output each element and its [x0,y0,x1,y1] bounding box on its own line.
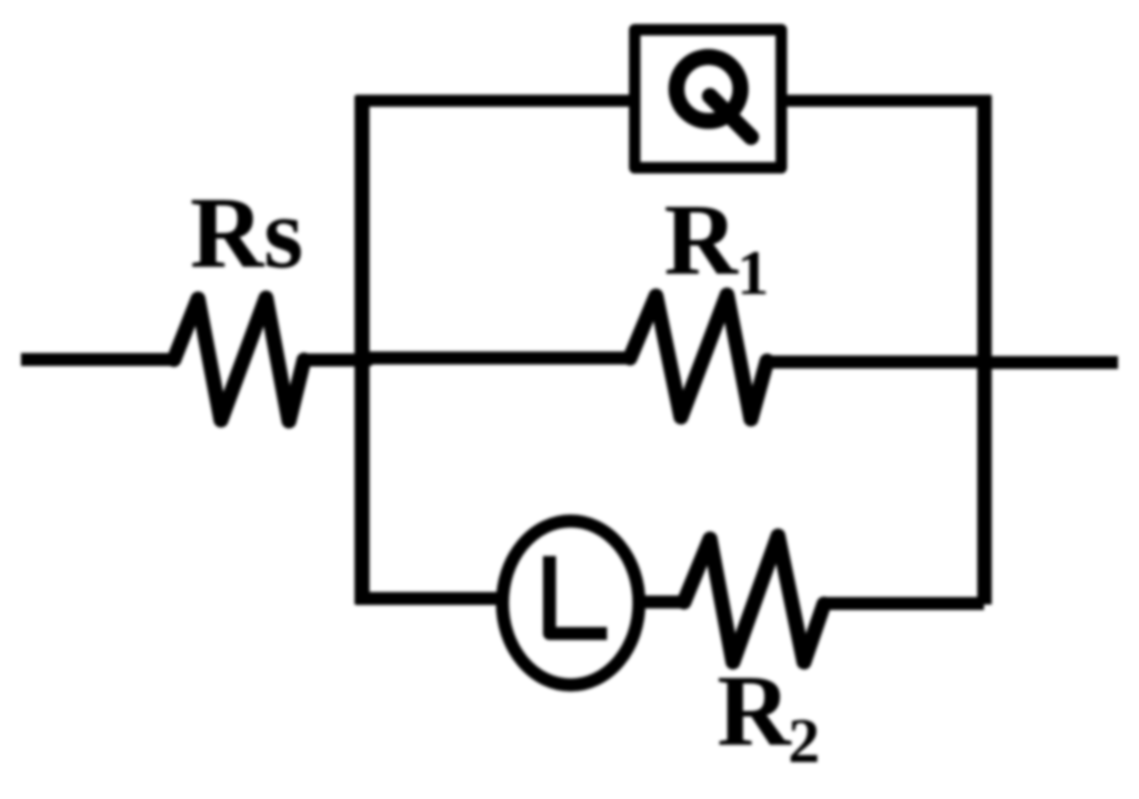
svg-text:Rs: Rs [190,177,303,290]
capacitor/CPE box Q1 [635,30,782,168]
wire Rs to node [304,354,368,367]
bottom rail right wire [824,597,984,610]
wire node to R1 [362,352,630,365]
wire L to R2 [644,596,684,609]
bottom rail left wire [356,592,498,605]
top rail wire left segment [356,95,630,107]
inductor L1 circle [502,521,639,685]
top rail wire right segment [786,95,991,107]
svg-text:R: R [664,184,739,297]
wire right stub [984,356,1118,369]
svg-text:1: 1 [737,237,769,308]
right vertical bus wire [977,96,992,605]
letter Q [677,57,752,137]
wire R1 to right bus [767,356,984,369]
resistor R2 [684,536,824,662]
letter L [550,556,608,634]
resistor Rs [174,298,304,421]
wire left lead [21,353,174,366]
left vertical bus wire [355,96,370,605]
node junction left [356,353,372,366]
svg-text:R: R [717,655,792,768]
resistor R1 [630,295,767,419]
svg-text:2: 2 [788,705,820,776]
